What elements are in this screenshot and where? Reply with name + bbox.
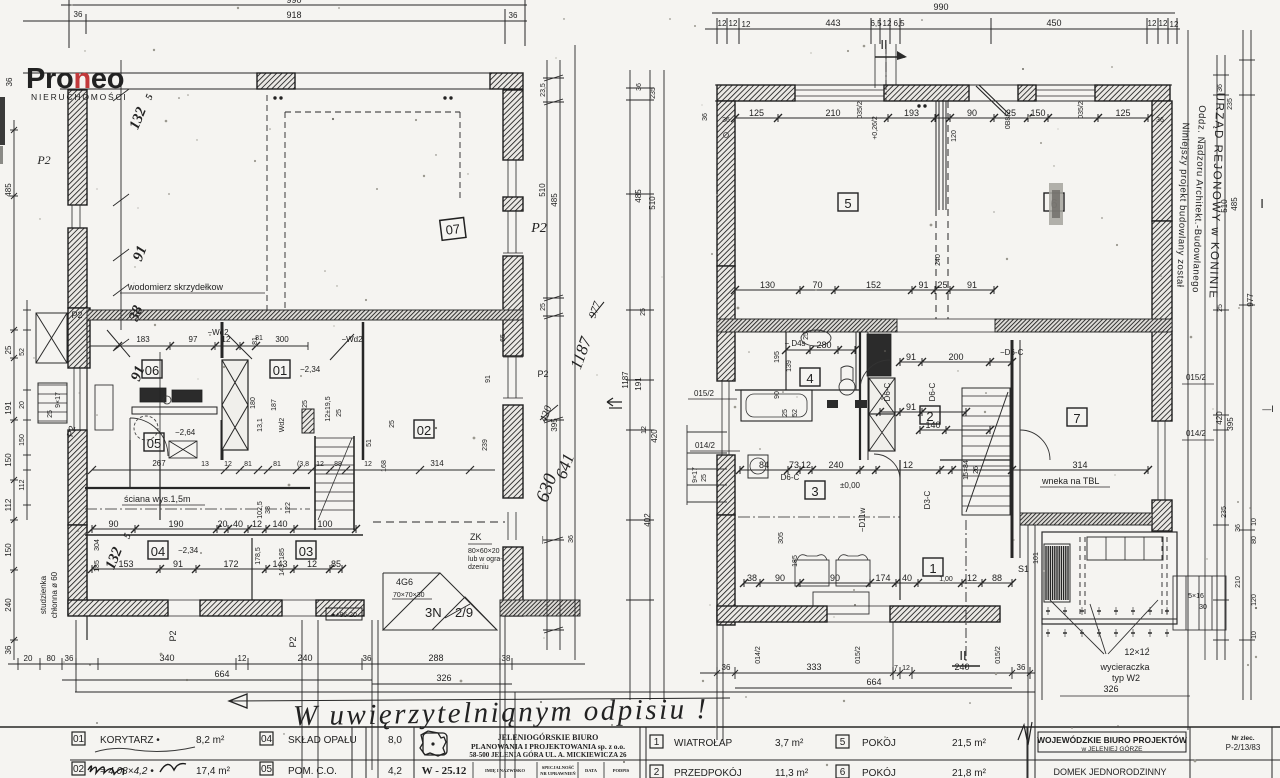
svg-text:485: 485 bbox=[634, 189, 643, 203]
svg-text:−2,64: −2,64 bbox=[175, 428, 196, 437]
svg-text:193: 193 bbox=[904, 108, 919, 118]
svg-text:wodomierz skrzydełkow: wodomierz skrzydełkow bbox=[127, 282, 224, 292]
svg-text:12: 12 bbox=[641, 426, 648, 434]
svg-text:70: 70 bbox=[812, 280, 822, 290]
svg-text:140: 140 bbox=[925, 420, 940, 430]
svg-text:191: 191 bbox=[4, 401, 13, 415]
svg-text:12: 12 bbox=[307, 559, 317, 569]
top wall hatch segment right bbox=[490, 73, 523, 89]
svg-text:485: 485 bbox=[550, 193, 559, 207]
stairs left plan bbox=[315, 438, 354, 510]
svg-text:05: 05 bbox=[261, 764, 273, 775]
room label 04 bbox=[148, 541, 168, 559]
svg-text:91: 91 bbox=[173, 559, 183, 569]
table numbox 5 bbox=[836, 735, 849, 748]
dim chain x=160 slanted ticks bbox=[159, 352, 161, 517]
svg-text:II: II bbox=[880, 37, 887, 52]
rp bathroom walls bbox=[785, 332, 787, 390]
svg-text:664: 664 bbox=[866, 677, 881, 687]
svg-text:5: 5 bbox=[840, 737, 846, 748]
svg-text:NR UPRAWNIEŃ: NR UPRAWNIEŃ bbox=[540, 771, 576, 776]
svg-text:±0,00: ±0,00 bbox=[840, 481, 861, 490]
svg-text:510: 510 bbox=[648, 196, 657, 210]
left plan top dim line 918 bbox=[23, 20, 527, 22]
rp right wall seg1 bbox=[1152, 101, 1172, 221]
terrace window grid bbox=[1087, 537, 1163, 560]
rp top wall seg3 bbox=[1018, 85, 1036, 101]
svg-text:●+86 20: ●+86 20 bbox=[331, 612, 357, 619]
left wall upper segment bbox=[68, 90, 87, 205]
svg-text:990: 990 bbox=[286, 0, 301, 5]
svg-text:36: 36 bbox=[1235, 524, 1242, 532]
right wall seg1b bbox=[503, 197, 523, 211]
rp right wall seg4 bbox=[1152, 500, 1172, 531]
room label 03 bbox=[296, 541, 316, 559]
svg-text:015/2: 015/2 bbox=[694, 389, 715, 398]
svg-text:305: 305 bbox=[778, 532, 785, 544]
svg-text:195: 195 bbox=[774, 351, 781, 363]
svg-text:112: 112 bbox=[4, 498, 13, 511]
svg-text:—I: —I bbox=[1262, 404, 1274, 414]
biuro bottom row bbox=[414, 759, 640, 761]
handwritten scribble row2 bbox=[88, 764, 186, 775]
svg-text:12×12: 12×12 bbox=[1124, 647, 1149, 657]
right wall seg3 bbox=[503, 405, 523, 498]
svg-text:P2: P2 bbox=[537, 369, 548, 379]
svg-text:130: 130 bbox=[760, 280, 775, 290]
rp mid wall bbox=[717, 319, 897, 332]
svg-text:36: 36 bbox=[74, 10, 83, 19]
svg-text:P2: P2 bbox=[168, 630, 178, 641]
svg-text:12: 12 bbox=[729, 19, 738, 28]
section line dash-dot bottom bbox=[965, 520, 967, 668]
svg-text:21,8 m²: 21,8 m² bbox=[952, 768, 987, 778]
svg-text:240: 240 bbox=[954, 662, 969, 672]
left wall window lines bbox=[68, 204, 87, 206]
svg-text:12: 12 bbox=[252, 519, 262, 529]
interior wall room04/05 bbox=[85, 487, 310, 489]
rp lower interior walls bbox=[859, 332, 861, 460]
svg-text:81: 81 bbox=[273, 461, 281, 468]
left plan top dim line 990 bbox=[61, 4, 527, 6]
svg-text:443: 443 bbox=[825, 18, 840, 28]
room3 table bbox=[813, 592, 869, 614]
svg-text:235: 235 bbox=[1221, 506, 1228, 518]
svg-text:4,2: 4,2 bbox=[388, 766, 402, 777]
svg-text:40: 40 bbox=[902, 573, 912, 583]
svg-text:139: 139 bbox=[786, 360, 793, 372]
svg-text:25: 25 bbox=[302, 400, 309, 408]
svg-text:8,0: 8,0 bbox=[388, 735, 402, 746]
middle chain B (right plan left side) bbox=[629, 70, 631, 700]
handwriting W uwierzytelnianym odpisie bbox=[293, 693, 709, 732]
svg-text:58-500 JELENIA GÓRA UL. A. MIC: 58-500 JELENIA GÓRA UL. A. MICKIEWICZA 2… bbox=[469, 751, 627, 759]
svg-text:13,1: 13,1 bbox=[257, 418, 264, 432]
table numbox 2 bbox=[650, 765, 663, 778]
svg-text:52: 52 bbox=[792, 409, 799, 417]
svg-text:30: 30 bbox=[1199, 604, 1207, 611]
svg-text:12: 12 bbox=[1159, 19, 1168, 28]
svg-text:180: 180 bbox=[250, 397, 257, 409]
svg-text:PRZEDPOKÓJ: PRZEDPOKÓJ bbox=[674, 766, 742, 778]
svg-text:W - 25.12: W - 25.12 bbox=[422, 765, 467, 777]
svg-text:≈ 4,08×4,2 •: ≈ 4,08×4,2 • bbox=[100, 766, 154, 777]
mid floor wall left plan bbox=[87, 310, 523, 320]
rp dim 200 bbox=[896, 358, 1016, 366]
terrace dots grid bbox=[1046, 607, 1169, 637]
svg-text:240: 240 bbox=[4, 598, 13, 612]
svg-text:150: 150 bbox=[4, 543, 13, 557]
svg-text:36: 36 bbox=[4, 645, 13, 654]
table numbox 01 bbox=[72, 732, 85, 745]
room label 2 bbox=[920, 406, 940, 424]
svg-text:12: 12 bbox=[903, 460, 913, 470]
svg-text:02: 02 bbox=[417, 423, 431, 438]
svg-text:PLANOWANIA I PROJEKTOWANIA sp.: PLANOWANIA I PROJEKTOWANIA sp. z o.o. bbox=[471, 742, 625, 751]
right wall window lines bbox=[503, 159, 523, 161]
kitchen counters room 06 bbox=[95, 385, 113, 430]
lower rooms outline left plan bbox=[86, 320, 88, 640]
svg-text:D6-C: D6-C bbox=[781, 473, 800, 482]
rp left wall seg1 bbox=[717, 101, 735, 266]
svg-text:240: 240 bbox=[935, 254, 942, 266]
svg-text:191: 191 bbox=[634, 377, 643, 391]
svg-text:267: 267 bbox=[152, 459, 166, 468]
svg-text:6,5: 6,5 bbox=[893, 19, 905, 28]
svg-text:200: 200 bbox=[948, 352, 963, 362]
svg-text:P-2/13/83: P-2/13/83 bbox=[1226, 743, 1261, 752]
rp left wall seg5 bbox=[717, 515, 735, 625]
small arrow mid bbox=[607, 398, 622, 406]
svg-text:314: 314 bbox=[430, 459, 444, 468]
svg-text:ZK: ZK bbox=[470, 532, 482, 542]
svg-text:85: 85 bbox=[331, 559, 341, 569]
svg-text:−2,34: −2,34 bbox=[300, 365, 321, 374]
rp right wall seg2 bbox=[1152, 221, 1172, 331]
svg-text:23,5: 23,5 bbox=[540, 83, 547, 97]
svg-text:12: 12 bbox=[967, 573, 977, 583]
svg-text:3N: 3N bbox=[425, 605, 442, 620]
svg-text:210: 210 bbox=[1235, 576, 1242, 588]
svg-text:90: 90 bbox=[108, 519, 118, 529]
svg-text:91: 91 bbox=[918, 280, 928, 290]
svg-text:01: 01 bbox=[273, 363, 287, 378]
svg-text:84: 84 bbox=[759, 460, 769, 470]
svg-text:13: 13 bbox=[201, 461, 209, 468]
svg-text:WIATROŁAP: WIATROŁAP bbox=[674, 738, 732, 749]
table numbox 02 bbox=[72, 762, 85, 775]
scan smudge room6 bbox=[1049, 183, 1063, 225]
svg-text:36: 36 bbox=[1156, 117, 1164, 124]
svg-text:25: 25 bbox=[47, 410, 54, 418]
svg-text:240: 240 bbox=[828, 460, 843, 470]
rp left wall seg2 bbox=[717, 266, 735, 331]
long verticals below rp bbox=[1027, 525, 1029, 778]
dim row lower2 left bbox=[88, 565, 346, 573]
svg-text:235: 235 bbox=[1227, 98, 1234, 110]
svg-text:D3-C: D3-C bbox=[923, 490, 932, 509]
left wall bottom segment bbox=[68, 525, 87, 615]
rp rooms56 dim bbox=[731, 114, 1152, 122]
svg-text:015/2: 015/2 bbox=[855, 646, 862, 664]
rp top wall seg2 bbox=[884, 85, 969, 101]
rp left wall seg3 bbox=[717, 331, 735, 381]
radiators wall 3/4 bbox=[827, 400, 838, 408]
svg-text:12: 12 bbox=[801, 460, 811, 470]
svg-text:02: 02 bbox=[73, 764, 85, 775]
rp door top diagonal bbox=[976, 85, 1009, 116]
svg-text:36: 36 bbox=[722, 117, 730, 124]
right wall seg2 bbox=[503, 256, 523, 356]
svg-text:6,5: 6,5 bbox=[870, 19, 882, 28]
svg-text:91: 91 bbox=[485, 375, 492, 383]
svg-text:D6-C: D6-C bbox=[928, 382, 937, 401]
room label 7 bbox=[1067, 408, 1087, 426]
rp dim 140 bbox=[916, 426, 994, 434]
rp exterior stairs bottom-left bbox=[687, 425, 727, 505]
svg-text:178,5: 178,5 bbox=[255, 547, 262, 565]
svg-text:91: 91 bbox=[967, 280, 977, 290]
svg-text:035/2: 035/2 bbox=[857, 101, 864, 119]
rp top wall seg1 bbox=[717, 85, 795, 101]
svg-text:12: 12 bbox=[1148, 19, 1157, 28]
rooms 5/6 divider dashed bbox=[935, 101, 937, 319]
svg-text:81: 81 bbox=[244, 461, 252, 468]
svg-text:402: 402 bbox=[643, 513, 652, 527]
svg-text:152: 152 bbox=[866, 280, 881, 290]
svg-text:S1: S1 bbox=[1018, 564, 1029, 574]
svg-text:KORYTARZ •: KORYTARZ • bbox=[100, 735, 160, 746]
door arcs rp bbox=[860, 360, 890, 390]
bottom dim area left plan bbox=[8, 663, 585, 665]
svg-text:−Wd2: −Wd2 bbox=[207, 328, 229, 337]
table vertical dividers bbox=[351, 727, 353, 778]
svg-text:664: 664 bbox=[214, 669, 229, 679]
svg-text:25: 25 bbox=[1217, 304, 1224, 312]
svg-text:38: 38 bbox=[265, 506, 272, 514]
svg-text:70×70×30: 70×70×30 bbox=[393, 592, 425, 599]
stairs right plan bbox=[962, 388, 1010, 515]
handwritten middle numbers bbox=[532, 300, 604, 505]
left wall mid segment bbox=[68, 228, 87, 308]
svg-text:125: 125 bbox=[1115, 108, 1130, 118]
entry door diagonal room06 bbox=[107, 330, 130, 357]
svg-text:288: 288 bbox=[428, 653, 443, 663]
room label 1 bbox=[923, 558, 943, 576]
svg-text:6: 6 bbox=[840, 767, 846, 778]
svg-text:04: 04 bbox=[261, 734, 273, 745]
svg-text:015/2: 015/2 bbox=[995, 646, 1002, 664]
svg-text:326: 326 bbox=[436, 673, 451, 683]
svg-text:07: 07 bbox=[445, 221, 461, 238]
svg-text:04: 04 bbox=[151, 544, 165, 559]
rp room2/1 partition bbox=[899, 460, 901, 600]
svg-text:1,00: 1,00 bbox=[939, 576, 953, 583]
svg-text:314: 314 bbox=[1072, 460, 1087, 470]
svg-text:190: 190 bbox=[168, 519, 183, 529]
rp room3 furniture sofas bbox=[795, 560, 829, 586]
svg-text:210: 210 bbox=[825, 108, 840, 118]
svg-text:36: 36 bbox=[509, 11, 518, 20]
door arcs top rooms bbox=[228, 335, 252, 359]
svg-text:−D6-C: −D6-C bbox=[1000, 348, 1024, 357]
svg-text:IMIĘ I NAZWISKO: IMIĘ I NAZWISKO bbox=[485, 768, 526, 773]
room label 3 bbox=[805, 481, 825, 499]
svg-text:280: 280 bbox=[816, 340, 831, 350]
roof dash marks bbox=[273, 96, 276, 99]
svg-text:420: 420 bbox=[650, 429, 659, 443]
svg-text:− D4s: − D4s bbox=[784, 339, 805, 348]
left edge dim chain 2 bbox=[26, 300, 28, 520]
svg-text:1187: 1187 bbox=[621, 371, 630, 389]
rp dim 280 bbox=[782, 346, 859, 354]
section line dash-dot top bbox=[885, 44, 887, 101]
svg-text:3,7 m²: 3,7 m² bbox=[775, 738, 804, 749]
svg-text:SPECJALNOŚĆ: SPECJALNOŚĆ bbox=[542, 765, 575, 770]
svg-text:485: 485 bbox=[4, 183, 13, 197]
svg-text:10: 10 bbox=[1251, 518, 1258, 526]
svg-text:140: 140 bbox=[272, 519, 287, 529]
rp rooms56 dim low bbox=[731, 286, 998, 294]
svg-text:52: 52 bbox=[19, 348, 26, 356]
svg-text:12: 12 bbox=[364, 461, 372, 468]
svg-text:D6-C: D6-C bbox=[883, 382, 892, 401]
svg-text:typ W2: typ W2 bbox=[1112, 673, 1140, 683]
svg-text:PODPIS: PODPIS bbox=[613, 768, 630, 773]
svg-text:36: 36 bbox=[1217, 84, 1224, 92]
svg-text:51: 51 bbox=[366, 439, 373, 447]
room 05 fixtures bbox=[134, 416, 158, 440]
left wall porch top bbox=[68, 308, 90, 368]
svg-text:80: 80 bbox=[47, 654, 56, 663]
svg-text:81: 81 bbox=[255, 335, 263, 342]
svg-text:SKŁAD OPAŁU: SKŁAD OPAŁU bbox=[288, 735, 357, 746]
svg-text:20: 20 bbox=[24, 654, 33, 663]
right wall seg4 bbox=[503, 547, 523, 616]
svg-text:120: 120 bbox=[1251, 594, 1258, 606]
bottom-right wall piece bbox=[500, 600, 580, 616]
svg-text:38: 38 bbox=[502, 654, 511, 663]
title block right bbox=[1038, 732, 1186, 752]
svg-text:12: 12 bbox=[224, 461, 232, 468]
svg-text:25: 25 bbox=[4, 345, 13, 354]
svg-text:wneka na TBL: wneka na TBL bbox=[1041, 476, 1099, 486]
long horizontal line above table bbox=[75, 691, 1035, 693]
svg-text:dzeniu: dzeniu bbox=[468, 564, 489, 571]
room02 dashed lines bbox=[373, 521, 505, 523]
svg-text:91: 91 bbox=[906, 352, 916, 362]
rp left wall seg4 bbox=[717, 455, 735, 515]
washer bbox=[748, 455, 768, 478]
svg-text:36: 36 bbox=[363, 654, 372, 663]
svg-text:25: 25 bbox=[937, 280, 947, 290]
bottom wall seg1 bbox=[68, 600, 168, 616]
svg-text:20: 20 bbox=[217, 519, 227, 529]
svg-text:102,5: 102,5 bbox=[257, 501, 264, 519]
svg-text:80×60×20: 80×60×20 bbox=[468, 548, 500, 555]
svg-text:DATA: DATA bbox=[585, 768, 598, 773]
svg-text:36: 36 bbox=[702, 113, 709, 121]
right wall seg1 bbox=[503, 90, 523, 160]
svg-text:3: 3 bbox=[811, 484, 818, 499]
svg-text:P2: P2 bbox=[71, 310, 82, 320]
long verticals below plan bbox=[371, 620, 373, 770]
svg-text:7: 7 bbox=[894, 665, 898, 672]
right plan top dim line 990 bbox=[712, 12, 1175, 14]
svg-text:25: 25 bbox=[1006, 108, 1016, 118]
svg-text:03: 03 bbox=[299, 544, 313, 559]
rp right wall seg3 bbox=[1152, 331, 1172, 421]
room label 6 bbox=[1044, 193, 1064, 211]
svg-text:326: 326 bbox=[1103, 684, 1118, 694]
table numbox 6 bbox=[836, 765, 849, 778]
svg-text:187: 187 bbox=[271, 399, 278, 411]
svg-text:P2: P2 bbox=[288, 636, 298, 647]
room label 5 bbox=[838, 193, 858, 211]
svg-text:977: 977 bbox=[1246, 293, 1255, 307]
terrace diagonals to label bbox=[1050, 600, 1158, 654]
svg-text:chłonna ø 60: chłonna ø 60 bbox=[50, 571, 59, 618]
svg-text:25: 25 bbox=[701, 474, 708, 482]
svg-text:36: 36 bbox=[636, 83, 643, 91]
rp bottom dim rows bbox=[700, 672, 1035, 674]
svg-text:235: 235 bbox=[650, 87, 657, 99]
svg-text:014/2: 014/2 bbox=[695, 441, 716, 450]
svg-text:1: 1 bbox=[929, 561, 936, 576]
svg-text:90: 90 bbox=[775, 573, 785, 583]
svg-text:239: 239 bbox=[482, 439, 489, 451]
svg-text:122: 122 bbox=[285, 502, 292, 514]
svg-text:01: 01 bbox=[73, 734, 85, 745]
svg-text:NIERUCHOMOŚCI: NIERUCHOMOŚCI bbox=[31, 91, 128, 102]
table numbox 1 bbox=[650, 735, 663, 748]
svg-text:80: 80 bbox=[1251, 536, 1258, 544]
stamp urzad rejonowy (rotated gray) bbox=[1174, 92, 1225, 299]
svg-text:9×17: 9×17 bbox=[55, 392, 62, 408]
svg-text:150: 150 bbox=[19, 434, 26, 446]
svg-text:12: 12 bbox=[718, 19, 727, 28]
svg-text:300: 300 bbox=[275, 335, 289, 344]
table numbox 05 bbox=[260, 762, 273, 775]
bathtub bbox=[741, 390, 812, 421]
svg-text:17,4 m²: 17,4 m² bbox=[196, 766, 231, 777]
terrace bottom lines bbox=[1042, 618, 1177, 620]
svg-text:510: 510 bbox=[538, 183, 547, 197]
right plan top dim line row 2 bbox=[705, 28, 1180, 30]
svg-text:−Wd2: −Wd2 bbox=[341, 335, 363, 344]
chimney X right plan bbox=[869, 378, 895, 414]
boiler block bbox=[867, 334, 891, 376]
svg-text:05: 05 bbox=[147, 436, 161, 451]
svg-text:97: 97 bbox=[189, 335, 198, 344]
dim chain line at x=121 bbox=[120, 60, 122, 330]
svg-text:Nr zlec.: Nr zlec. bbox=[1231, 735, 1254, 742]
svg-text:5: 5 bbox=[844, 196, 851, 211]
svg-text:183: 183 bbox=[136, 335, 150, 344]
dashdot section line room3 bbox=[738, 516, 900, 518]
svg-text:25: 25 bbox=[640, 308, 647, 316]
svg-text:36: 36 bbox=[65, 654, 74, 663]
rp small marks bbox=[917, 104, 920, 107]
proneo logo bbox=[26, 63, 128, 102]
bottom wall window lines bbox=[168, 599, 200, 601]
terrace grille bbox=[1044, 544, 1070, 602]
svg-text:73: 73 bbox=[789, 460, 799, 470]
svg-text:38: 38 bbox=[747, 573, 757, 583]
svg-text:12: 12 bbox=[883, 19, 892, 28]
svg-text:25: 25 bbox=[389, 420, 396, 428]
svg-text:150: 150 bbox=[4, 453, 13, 467]
